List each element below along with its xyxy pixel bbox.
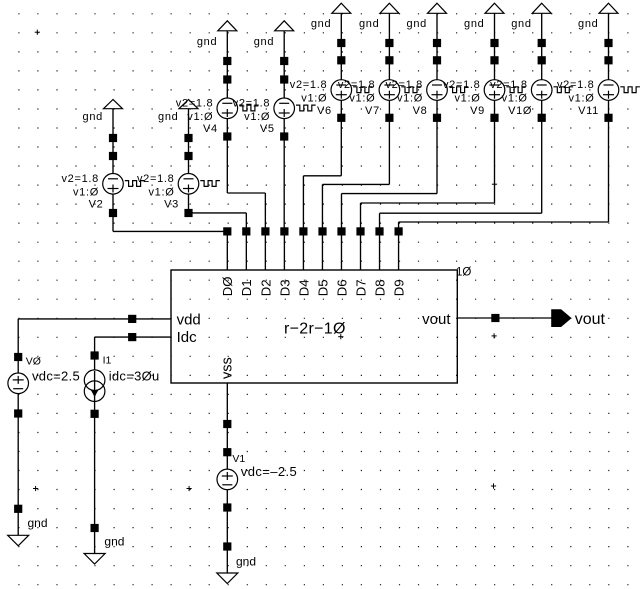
svg-text:gnd: gnd (511, 18, 531, 30)
svg-text:v1:Ø: v1:Ø (568, 93, 594, 105)
svg-text:D1: D1 (239, 279, 254, 296)
svg-text:V5: V5 (260, 123, 275, 135)
svg-text:D8: D8 (372, 279, 387, 296)
svg-text:V4: V4 (203, 123, 218, 135)
svg-text:v1:Ø: v1:Ø (349, 93, 375, 105)
svg-text:gnd: gnd (104, 534, 124, 548)
svg-text:D9: D9 (391, 279, 406, 296)
svg-text:v1:Ø: v1:Ø (187, 111, 213, 123)
svg-text:vdc=2.5: vdc=2.5 (32, 369, 80, 384)
svg-text:V1Ø: V1Ø (508, 105, 532, 117)
svg-text:v2=1.8: v2=1.8 (137, 173, 175, 185)
svg-text:v2=1.8: v2=1.8 (557, 79, 595, 91)
svg-text:D5: D5 (315, 279, 330, 296)
svg-text:D7: D7 (353, 279, 368, 296)
svg-text:V1: V1 (232, 453, 245, 465)
svg-text:v1:Ø: v1:Ø (148, 186, 174, 198)
svg-text:gnd: gnd (28, 516, 48, 530)
svg-text:DØ: DØ (220, 277, 235, 297)
svg-text:v2=1.8: v2=1.8 (443, 79, 481, 91)
svg-text:v1:Ø: v1:Ø (502, 93, 528, 105)
svg-text:gnd: gnd (83, 111, 103, 123)
svg-text:v2=1.8: v2=1.8 (176, 97, 214, 109)
svg-text:r−2r−1Ø: r−2r−1Ø (284, 320, 346, 337)
svg-text:v2=1.8: v2=1.8 (233, 97, 271, 109)
svg-text:V7: V7 (365, 105, 380, 117)
svg-text:v2=1.8: v2=1.8 (490, 79, 528, 91)
svg-text:D2: D2 (258, 279, 273, 296)
svg-text:gnd: gnd (578, 18, 598, 30)
svg-text:v2=1.8: v2=1.8 (338, 79, 376, 91)
svg-text:v1:Ø: v1:Ø (301, 93, 327, 105)
svg-text:I1: I1 (103, 355, 112, 367)
svg-text:gnd: gnd (407, 18, 427, 30)
svg-text:V9: V9 (470, 105, 485, 117)
svg-text:vss: vss (220, 357, 236, 379)
svg-text:v1:Ø: v1:Ø (397, 93, 423, 105)
svg-text:gnd: gnd (254, 36, 274, 48)
svg-text:idc=3Øu: idc=3Øu (109, 369, 160, 384)
svg-text:vout: vout (575, 311, 606, 328)
svg-text:V3: V3 (164, 199, 179, 211)
svg-text:v2=1.8: v2=1.8 (385, 79, 423, 91)
svg-text:v2=1.8: v2=1.8 (61, 173, 99, 185)
svg-text:V8: V8 (413, 105, 428, 117)
svg-text:gnd: gnd (464, 18, 484, 30)
svg-text:gnd: gnd (158, 111, 178, 123)
svg-text:D6: D6 (334, 279, 349, 296)
svg-text:1Ø: 1Ø (456, 266, 471, 278)
svg-text:V11: V11 (578, 105, 599, 117)
svg-text:gnd: gnd (311, 18, 331, 30)
svg-text:V2: V2 (89, 199, 104, 211)
svg-text:D4: D4 (296, 279, 311, 296)
svg-text:gnd: gnd (197, 36, 217, 48)
svg-text:vout: vout (422, 311, 451, 328)
svg-text:v1:Ø: v1:Ø (454, 93, 480, 105)
svg-text:v1:Ø: v1:Ø (244, 111, 270, 123)
svg-text:v1:Ø: v1:Ø (73, 186, 99, 198)
svg-text:Idc: Idc (177, 329, 198, 346)
svg-text:gnd: gnd (359, 18, 379, 30)
svg-text:v2=1.8: v2=1.8 (290, 79, 328, 91)
svg-text:D3: D3 (277, 279, 292, 296)
svg-text:VØ: VØ (26, 356, 41, 368)
svg-text:gnd: gnd (236, 555, 256, 569)
svg-text:vdc=–2.5: vdc=–2.5 (241, 464, 297, 479)
svg-text:vdd: vdd (177, 311, 201, 328)
svg-text:V6: V6 (317, 105, 332, 117)
